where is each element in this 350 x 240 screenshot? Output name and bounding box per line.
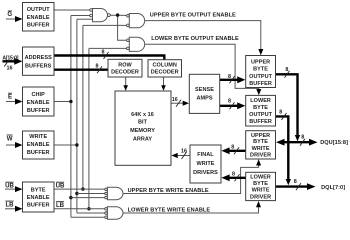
node bus width 8 row address <box>96 64 103 74</box>
svg-text:ENABLE: ENABLE <box>27 15 50 21</box>
svg-text:BUFFER: BUFFER <box>27 150 50 156</box>
svg-text:16: 16 <box>181 148 187 154</box>
pin W input with arrow <box>6 135 23 148</box>
svg-text:G: G <box>7 11 12 18</box>
wire final write drivers to memory 16 <box>171 153 190 158</box>
box SENSE AMPS <box>189 74 219 113</box>
svg-text:8: 8 <box>96 64 99 70</box>
node junction E to U4 <box>69 196 72 199</box>
pin LB input with arrow <box>5 201 23 212</box>
wire sense amps to lower byte output buffer <box>220 102 246 109</box>
wire A[15:0] input bus <box>3 58 23 65</box>
wire DQU bus <box>276 139 318 146</box>
node bus width 8 DQU <box>300 135 305 146</box>
node UPPER BYTE WRITE ENABLE label <box>128 188 209 194</box>
wire upper byte write driver to final write drivers <box>221 147 245 154</box>
box BYTE ENABLE BUFFER <box>23 182 55 212</box>
node junction E chip enable <box>69 100 72 103</box>
node bus width 8 sense to lower <box>228 99 235 110</box>
svg-text:BUFFER: BUFFER <box>27 23 50 29</box>
node bus width 8 lower ob out <box>279 110 286 120</box>
svg-text:DRIVER: DRIVER <box>250 153 271 159</box>
wire address bus to column decoder <box>54 56 164 60</box>
box ADDRESS BUFFERS <box>23 47 55 75</box>
box FINAL WRITE DRIVERS <box>190 145 221 183</box>
svg-text:UPPER BYTE WRITE ENABLE: UPPER BYTE WRITE ENABLE <box>128 188 209 194</box>
svg-text:8: 8 <box>102 50 105 56</box>
svg-text:DRIVER: DRIVER <box>250 194 271 200</box>
svg-text:A[15:0]: A[15:0] <box>2 55 18 61</box>
svg-text:WRITE: WRITE <box>252 188 270 194</box>
svg-text:UPPER: UPPER <box>251 133 270 139</box>
svg-text:BUFFER: BUFFER <box>249 119 272 125</box>
svg-text:UB: UB <box>56 182 65 189</box>
svg-text:LOWER BYTE WRITE ENABLE: LOWER BYTE WRITE ENABLE <box>128 208 211 214</box>
svg-text:DRIVERS: DRIVERS <box>193 170 218 176</box>
svg-text:BYTE: BYTE <box>31 188 46 194</box>
svg-text:FINAL: FINAL <box>197 152 214 158</box>
wire U4 input stubs <box>54 189 105 198</box>
svg-text:ADDRESS: ADDRESS <box>25 55 53 61</box>
node LOWER BYTE WRITE ENABLE label <box>128 208 211 214</box>
wire E vertical net <box>54 16 90 218</box>
svg-text:DECODER: DECODER <box>111 70 139 76</box>
wire lower byte write driver to final write drivers <box>221 174 245 181</box>
node junction W write enable <box>75 143 78 146</box>
node junction U1 output <box>116 13 119 16</box>
wire W vertical net <box>54 19 93 213</box>
svg-text:8: 8 <box>228 74 231 80</box>
svg-text:16: 16 <box>172 97 178 103</box>
svg-text:E: E <box>8 94 12 101</box>
svg-text:COLUMN: COLUMN <box>152 63 176 69</box>
box CHIP ENABLE BUFFER <box>23 87 55 116</box>
svg-text:ENABLE: ENABLE <box>27 100 50 106</box>
pin UB input with arrow <box>5 182 23 192</box>
svg-text:DQL[7:0]: DQL[7:0] <box>321 185 345 191</box>
wire UPPER BYTE WRITE ENABLE <box>123 159 261 193</box>
wire LB vertical net <box>89 48 127 208</box>
svg-text:AMPS: AMPS <box>196 96 212 102</box>
svg-text:8: 8 <box>301 135 304 141</box>
box UPPER BYTE WRITE DRIVER <box>246 131 276 159</box>
svg-text:BYTE: BYTE <box>253 139 268 145</box>
node bus width 16 final to memory <box>181 148 187 159</box>
box UPPER BYTE OUTPUT BUFFER <box>246 56 276 88</box>
svg-text:ARRAY: ARRAY <box>133 136 153 142</box>
svg-text:UPPER BYTE OUTPUT ENABLE: UPPER BYTE OUTPUT ENABLE <box>150 13 236 19</box>
box WRITE ENABLE BUFFER <box>23 131 55 159</box>
op-amp gate U5 lower byte write enable AND <box>105 207 123 219</box>
node junction LB <box>87 207 90 210</box>
wire address bus to row decoder <box>54 68 108 70</box>
svg-text:16: 16 <box>7 66 13 72</box>
wire LOWER BYTE OUTPUT ENABLE <box>145 44 262 95</box>
wire sense amps to upper byte output buffer <box>220 76 246 83</box>
node bus width 16 memory to sense amps <box>172 97 181 107</box>
svg-text:8: 8 <box>231 144 234 150</box>
wire UB vertical net <box>83 25 127 189</box>
svg-text:LOWER: LOWER <box>250 175 271 181</box>
svg-text:ENABLE: ENABLE <box>27 195 50 201</box>
node bus width 8 upper wd to final <box>231 144 239 154</box>
svg-text:SENSE: SENSE <box>195 87 214 93</box>
svg-text:BUFFERS: BUFFERS <box>25 63 52 69</box>
node DQL[7:0] label <box>321 185 345 191</box>
node junction UB <box>81 187 84 190</box>
svg-text:WRITE: WRITE <box>197 161 215 167</box>
svg-text:8: 8 <box>294 179 297 185</box>
svg-text:UB: UB <box>5 182 14 189</box>
svg-text:ROW: ROW <box>118 63 132 69</box>
node UB internal label <box>56 182 65 189</box>
box 64K x 16 BIT MEMORY ARRAY <box>115 91 171 165</box>
svg-text:W: W <box>7 135 13 142</box>
node bus width 8 lower wd to final <box>232 172 240 182</box>
wire lower byte output buffer to DQL <box>276 116 292 185</box>
wire upper byte output buffer to DQU <box>276 74 301 141</box>
pin A[15:0] label <box>2 55 18 71</box>
op-amp gate U4 upper byte write enable AND <box>105 187 123 199</box>
svg-text:BIT: BIT <box>138 120 148 126</box>
svg-text:64K x 16: 64K x 16 <box>131 112 154 118</box>
op-amp gate U3 lower byte output enable AND <box>127 37 145 51</box>
svg-text:BUFFER: BUFFER <box>249 81 272 87</box>
svg-text:BYTE: BYTE <box>253 105 268 111</box>
box ROW DECODER <box>108 59 142 77</box>
svg-text:8: 8 <box>279 110 282 116</box>
wire DQL bus <box>275 183 316 190</box>
op-amp gate U2 upper byte output enable AND <box>127 14 145 28</box>
wire row decoder to memory <box>123 77 128 91</box>
svg-text:LOWER BYTE OUTPUT ENABLE: LOWER BYTE OUTPUT ENABLE <box>151 36 239 42</box>
svg-text:LB: LB <box>5 201 14 208</box>
node bus width 8 sense to upper <box>228 74 235 83</box>
node bus width 8 column address <box>102 50 109 60</box>
svg-text:8: 8 <box>228 99 231 105</box>
wire U1 output to U2 and U3 <box>110 15 126 40</box>
pin G input with arrow <box>6 11 23 22</box>
wire LOWER BYTE WRITE ENABLE <box>123 201 261 213</box>
node DQU[15:8] label <box>320 140 348 146</box>
svg-text:8: 8 <box>232 172 235 178</box>
svg-text:BUFFER: BUFFER <box>27 203 50 209</box>
node UPPER BYTE OUTPUT ENABLE label <box>150 13 236 19</box>
svg-text:OUTPUT: OUTPUT <box>249 112 272 118</box>
wire U5 input stubs <box>54 209 105 217</box>
wire UPPER BYTE OUTPUT ENABLE <box>145 21 264 56</box>
wire G buffer output to U1 top input <box>54 9 90 11</box>
box COLUMN DECODER <box>148 60 182 77</box>
svg-text:ENABLE: ENABLE <box>27 142 50 148</box>
node LOWER BYTE OUTPUT ENABLE label <box>151 36 239 42</box>
svg-text:BUFFER: BUFFER <box>27 108 50 114</box>
svg-text:MEMORY: MEMORY <box>130 128 155 134</box>
wire memory to sense amps 16 <box>171 101 189 106</box>
svg-text:CHIP: CHIP <box>32 92 46 98</box>
svg-text:DECODER: DECODER <box>151 70 179 76</box>
svg-text:DQU[15:8]: DQU[15:8] <box>320 140 348 146</box>
node junction W to U4 <box>75 192 78 195</box>
box LOWER BYTE WRITE DRIVER <box>246 172 276 200</box>
box OUTPUT ENABLE BUFFER <box>23 3 55 32</box>
svg-text:WRITE: WRITE <box>29 134 47 140</box>
svg-text:LB: LB <box>56 202 65 209</box>
wire column decoder to memory <box>161 77 166 91</box>
svg-text:LOWER: LOWER <box>250 98 271 104</box>
pin E input with arrow <box>6 93 23 104</box>
svg-text:BYTE: BYTE <box>253 181 268 187</box>
node bus width 8 DQL <box>294 179 301 190</box>
svg-text:WRITE: WRITE <box>252 146 270 152</box>
box LOWER BYTE OUTPUT BUFFER <box>246 95 276 126</box>
op-amp gate U1 NAND output-enable <box>90 9 111 22</box>
svg-text:OUTPUT: OUTPUT <box>249 74 272 80</box>
svg-text:UPPER: UPPER <box>251 60 270 66</box>
svg-text:OUTPUT: OUTPUT <box>27 7 50 13</box>
node LB internal label <box>56 202 65 209</box>
svg-text:BYTE: BYTE <box>253 67 268 73</box>
node bus width 8 upper ob out <box>285 67 290 78</box>
